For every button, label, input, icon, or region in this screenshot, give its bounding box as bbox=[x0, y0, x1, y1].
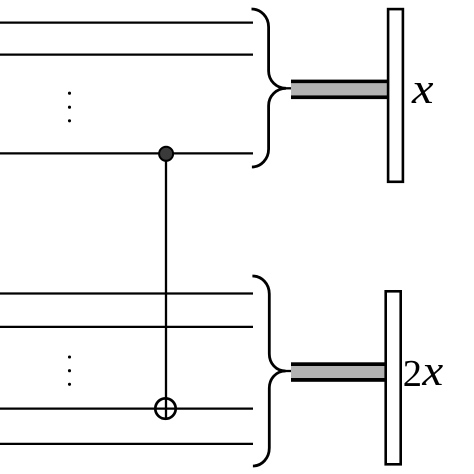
wire: bottom register qubit line 2 bbox=[0, 326, 253, 328]
wire: top register qubit line 2 bbox=[0, 53, 253, 55]
CNOT target circle on bottom register bbox=[155, 398, 175, 418]
bus bar: bottom register (gray ribbon) bbox=[291, 362, 385, 382]
svg-text:2: 2 bbox=[403, 353, 422, 395]
register bar: bottom (tall rectangle) bbox=[386, 291, 401, 464]
wire: top register qubit line 1 bbox=[0, 21, 253, 23]
wire: vertical control-to-target link bbox=[165, 154, 167, 420]
brace: top register grouping bbox=[252, 9, 287, 167]
bus bar: top register (gray ribbon) bbox=[291, 80, 387, 100]
brace: bottom register grouping bbox=[252, 276, 285, 466]
wire: bottom brace tip to bus bar connector bbox=[285, 370, 293, 372]
wire: bottom register qubit line 1 bbox=[0, 292, 253, 294]
wire: top register control line bbox=[0, 152, 253, 154]
wire: bottom register target line bbox=[0, 407, 253, 409]
control dot on top register bbox=[159, 147, 173, 161]
ellipsis: bottom register vertical dots bbox=[68, 355, 71, 385]
wire: top brace tip to bus bar connector bbox=[285, 87, 292, 89]
svg-text:x: x bbox=[411, 66, 434, 113]
wire: bottom register qubit line 4 bbox=[0, 443, 253, 445]
ellipsis: top register vertical dots bbox=[68, 92, 71, 123]
register bar: top (tall rectangle) bbox=[388, 9, 403, 182]
svg-text:x: x bbox=[421, 348, 443, 395]
